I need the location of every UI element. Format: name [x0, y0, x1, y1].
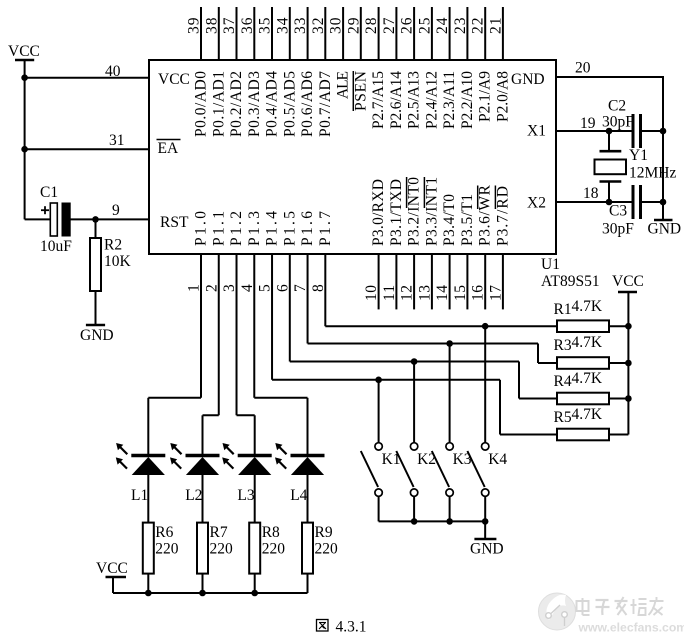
label C1 [40, 184, 58, 201]
svg-text:P3.7/RD: P3.7/RD [494, 186, 511, 246]
label R6 [155, 524, 173, 541]
wire K3 column [449, 344, 451, 444]
pin label P3.2/INT0 [406, 177, 423, 246]
svg-text:P3.6/WR: P3.6/WR [477, 184, 494, 246]
wire rail to C1 [25, 218, 51, 220]
pin number 8 [310, 284, 327, 292]
IC U1 AT89S51 body [149, 60, 556, 254]
svg-text:220: 220 [262, 541, 286, 558]
switch K1 [361, 443, 383, 497]
pin number 20 [575, 60, 591, 77]
svg-text:20: 20 [575, 60, 591, 77]
svg-text:34: 34 [274, 17, 291, 34]
node junction LED bus [251, 590, 258, 597]
pin number 4 [239, 284, 256, 292]
node junction RST-R2 [92, 216, 99, 223]
pin label ALE [335, 71, 352, 99]
wire pin 14 bottom stub [449, 254, 451, 309]
wire pin 25 top stub [431, 7, 433, 60]
svg-text:GND: GND [80, 327, 114, 344]
svg-text:P1.2: P1.2 [228, 211, 245, 246]
pin number 34 [274, 17, 291, 34]
pin label P1.5 [281, 211, 298, 246]
label L4 [290, 487, 307, 504]
svg-text:4.7K: 4.7K [572, 370, 603, 387]
node junction P1.6-K3 [446, 340, 453, 347]
LED L1 [116, 443, 166, 475]
svg-text:P2.5/A13: P2.5/A13 [406, 71, 423, 129]
svg-text:www.elecfans.com: www.elecfans.com [578, 621, 684, 635]
label C3 [609, 203, 627, 220]
svg-text:P2.0/A8: P2.0/A8 [494, 71, 511, 122]
svg-text:25: 25 [416, 17, 433, 34]
svg-text:3: 3 [221, 284, 238, 292]
wire pin6 P1.5 net [290, 254, 557, 399]
label 220 (R7) [210, 541, 234, 558]
label 12MHz [629, 165, 676, 182]
node junction K4 bus [482, 518, 489, 525]
wire K1 column [378, 380, 380, 443]
pin label P1.2 [228, 211, 245, 246]
wire K1 bottom stub [378, 496, 380, 521]
label R2 [104, 237, 122, 254]
wire pin 11 bottom stub [395, 254, 397, 309]
wire pin 34 top stub [289, 7, 291, 60]
resistor R6 [143, 523, 154, 593]
wire pin 13 bottom stub [431, 254, 433, 309]
pin number 38 [203, 17, 220, 34]
svg-text:8: 8 [310, 284, 327, 292]
label 4.7K (R5) [572, 406, 603, 423]
wire C3 to rail [641, 201, 664, 203]
pin number 9 [112, 202, 120, 219]
node junction rail [625, 360, 632, 367]
svg-text:9: 9 [112, 202, 120, 219]
pin number 31 [109, 132, 125, 149]
pin label P3.5/T1 [459, 194, 476, 246]
node junction X2 [606, 199, 613, 206]
ground GND right of C3 [648, 220, 682, 238]
svg-text:L3: L3 [237, 487, 254, 504]
wire pin 23 top stub [466, 7, 468, 60]
svg-text:P2.3/A11: P2.3/A11 [441, 71, 458, 129]
svg-text:P2.7/A15: P2.7/A15 [370, 71, 387, 129]
svg-text:P3.3/INT1: P3.3/INT1 [423, 177, 440, 246]
pin label EA (chip) [157, 140, 181, 158]
svg-text:7: 7 [292, 284, 309, 292]
wire pin 10 bottom stub [378, 254, 380, 309]
wire switch ground bus [379, 520, 486, 522]
svg-text:30pF: 30pF [602, 221, 634, 238]
svg-text:26: 26 [399, 17, 416, 34]
pin number 23 [452, 17, 469, 34]
svg-text:P1.5: P1.5 [281, 211, 298, 246]
svg-text:18: 18 [583, 185, 599, 202]
switch K4 [467, 443, 489, 497]
label 30pF C2 [602, 114, 634, 131]
svg-text:220: 220 [210, 541, 234, 558]
caption 图 4.3.1 [317, 619, 367, 636]
LED L4 [275, 443, 325, 475]
svg-text:220: 220 [155, 541, 179, 558]
svg-text:R6: R6 [155, 524, 173, 541]
pin label PSEN [352, 71, 369, 111]
node junction X1 [606, 128, 613, 135]
pin label X1 (chip) [527, 123, 546, 140]
label 220 (R6) [155, 541, 179, 558]
svg-text:L1: L1 [131, 487, 148, 504]
svg-text:1: 1 [186, 284, 203, 292]
svg-text:R1: R1 [554, 301, 572, 318]
wire pin 28 top stub [378, 7, 380, 60]
svg-text:P0.6/AD6: P0.6/AD6 [299, 71, 316, 137]
pin label P3.3/INT1 [423, 177, 440, 246]
svg-text:36: 36 [239, 17, 256, 34]
pin number 27 [381, 17, 398, 34]
svg-text:2: 2 [203, 284, 220, 292]
svg-text:30pF: 30pF [602, 114, 634, 131]
switch K2 [396, 443, 418, 497]
pin number 2 [203, 284, 220, 292]
resistor R3 [557, 357, 628, 369]
wire L1 to R6 [147, 475, 149, 523]
node junction P1.4-K1 [375, 377, 382, 384]
svg-text:17: 17 [487, 285, 504, 301]
pin number 36 [239, 17, 256, 34]
label 10uF [40, 238, 72, 255]
node junction K2 bus [411, 518, 418, 525]
svg-text:EA: EA [158, 140, 179, 157]
pin label GND (chip) [511, 71, 545, 88]
wire C1 to RST [70, 218, 149, 220]
wire L2 to R7 [202, 475, 204, 523]
wire pin 33 top stub [307, 7, 309, 60]
svg-text:R9: R9 [315, 524, 333, 541]
svg-text:38: 38 [203, 17, 220, 34]
svg-text:P0.2/AD2: P0.2/AD2 [228, 71, 245, 137]
LED L3 [222, 443, 272, 475]
svg-text:30: 30 [328, 17, 345, 34]
wire pin2 to L2 [203, 254, 219, 454]
svg-text:R3: R3 [554, 337, 572, 354]
pin number 15 [452, 285, 469, 301]
wire K4 column [484, 326, 486, 443]
svg-text:4: 4 [239, 284, 256, 292]
svg-text:P1.6: P1.6 [299, 211, 316, 246]
pin label P0.6/AD6 [299, 71, 316, 137]
pin number 7 [292, 284, 309, 292]
wire pin 12 bottom stub [413, 254, 415, 309]
label R8 [262, 524, 280, 541]
wire pin31 EA [25, 148, 149, 150]
svg-text:P3.0/RXD: P3.0/RXD [370, 179, 387, 246]
label K1 [382, 451, 401, 468]
svg-text:P0.5/AD5: P0.5/AD5 [281, 71, 298, 137]
svg-text:23: 23 [452, 17, 469, 34]
label 4.7K (R4) [572, 370, 603, 387]
svg-text:10: 10 [363, 285, 380, 301]
pin label P0.2/AD2 [228, 71, 245, 137]
capacitor C3 [633, 185, 641, 219]
wire K4 bottom stub [484, 496, 486, 521]
svg-text:P0.4/AD4: P0.4/AD4 [264, 71, 281, 137]
pin label P0.5/AD5 [281, 71, 298, 137]
pin number 19 [580, 115, 596, 132]
svg-text:P1.3: P1.3 [246, 211, 263, 246]
wire C2 to rail [641, 130, 664, 132]
pin number 6 [274, 284, 291, 292]
wire K2 bottom stub [413, 496, 415, 521]
pin label P2.2/A10 [459, 71, 476, 129]
svg-text:AT89S51: AT89S51 [541, 273, 600, 290]
label 10K [104, 253, 132, 270]
power symbol VCC top-left [8, 43, 40, 219]
svg-text:VCC: VCC [96, 560, 128, 577]
svg-text:16: 16 [470, 285, 487, 301]
svg-text:220: 220 [315, 541, 339, 558]
svg-text:X2: X2 [527, 195, 546, 212]
pin number 18 [583, 185, 599, 202]
pin label P2.4/A12 [423, 71, 440, 129]
resistor R5 [557, 429, 628, 441]
crystal Y1 [595, 131, 627, 202]
wire pin 27 top stub [395, 7, 397, 60]
wire LED VCC bus [113, 592, 308, 594]
svg-text:P3.4/T0: P3.4/T0 [441, 194, 458, 246]
svg-text:P1.4: P1.4 [264, 211, 281, 246]
svg-text:19: 19 [580, 115, 596, 132]
svg-text:R7: R7 [210, 524, 228, 541]
svg-text:U1: U1 [541, 256, 560, 273]
pin label P1.6 [299, 211, 316, 246]
svg-text:R8: R8 [262, 524, 280, 541]
label R1 [554, 301, 572, 318]
svg-text:PSEN: PSEN [352, 71, 369, 111]
svg-text:R4: R4 [554, 373, 572, 390]
svg-text:15: 15 [452, 285, 469, 301]
node junction P1.7-K4 [482, 323, 489, 330]
svg-text:P0.7/AD7: P0.7/AD7 [317, 71, 334, 137]
pin number 21 [487, 18, 504, 35]
wire pin 21 top stub [502, 7, 504, 60]
svg-text:P1.1: P1.1 [210, 211, 227, 246]
svg-text:4.7K: 4.7K [572, 406, 603, 423]
wire pin3 to L3 [237, 254, 255, 454]
svg-text:13: 13 [416, 285, 433, 301]
svg-text:12MHz: 12MHz [629, 165, 676, 182]
pin number 5 [257, 284, 274, 292]
pin number 26 [399, 17, 416, 34]
pin label X2 (chip) [527, 195, 546, 212]
power symbol VCC right [612, 273, 644, 435]
svg-text:GND: GND [648, 221, 682, 238]
node junction C2-rail [660, 128, 667, 135]
svg-text:5: 5 [257, 284, 274, 292]
wire K3 bottom stub [449, 496, 451, 521]
svg-text:VCC: VCC [612, 273, 644, 290]
label Y1 [629, 147, 648, 164]
resistor R4 [557, 393, 628, 405]
svg-text:29: 29 [345, 17, 362, 34]
resistor R9 [302, 523, 313, 593]
wire pin7 P1.6 net [308, 254, 557, 363]
wire pin 38 top stub [218, 7, 220, 60]
pin label P3.6/WR [477, 184, 494, 246]
pin number 37 [221, 17, 238, 34]
svg-text:X1: X1 [527, 123, 546, 140]
pin label P2.6/A14 [388, 71, 405, 129]
pin number 25 [416, 17, 433, 34]
svg-text:P2.4/A12: P2.4/A12 [423, 71, 440, 129]
wire pin 26 top stub [413, 7, 415, 60]
wire pin 37 top stub [236, 7, 238, 60]
pin label P1.7 [317, 211, 334, 246]
pin number 1 [186, 284, 203, 292]
svg-text:P1.7: P1.7 [317, 211, 334, 246]
svg-text:32: 32 [310, 18, 327, 35]
pin label P2.3/A11 [441, 71, 458, 129]
ground GND under switches [470, 521, 504, 557]
wire pin 36 top stub [253, 7, 255, 60]
wire pin1 to L1 [148, 254, 201, 454]
node junction LED bus [199, 590, 206, 597]
pin label P1.4 [264, 211, 281, 246]
pin label P0.0/AD0 [193, 71, 210, 137]
node junction K3 bus [446, 518, 453, 525]
svg-text:10uF: 10uF [40, 238, 72, 255]
svg-text:35: 35 [257, 17, 274, 34]
node junction VCC-pin31 [21, 146, 28, 153]
node junction rail [625, 395, 632, 402]
wire pin 30 top stub [342, 7, 344, 60]
svg-text:4.7K: 4.7K [572, 334, 603, 351]
svg-text:39: 39 [186, 17, 203, 34]
svg-text:P3.2/INT0: P3.2/INT0 [406, 177, 423, 246]
wire pin 32 top stub [324, 7, 326, 60]
label R3 [554, 337, 572, 354]
wire pin4 to L4 [254, 254, 307, 454]
wire pin18 X2 [556, 201, 633, 203]
pin label RST (chip) [160, 214, 189, 231]
pin label P0.3/AD3 [246, 71, 263, 137]
svg-text:21: 21 [487, 18, 504, 35]
label 220 (R8) [262, 541, 286, 558]
pin number 33 [292, 17, 309, 34]
pin number 22 [470, 18, 487, 35]
pin label P2.5/A13 [406, 71, 423, 129]
LED L2 [170, 443, 220, 475]
chip designator U1 [541, 256, 560, 273]
label 4.7K (R3) [572, 334, 603, 351]
capacitor C2 [633, 114, 641, 148]
pin number 40 [105, 63, 121, 80]
pin number 3 [221, 284, 238, 292]
resistor R7 [197, 523, 208, 593]
svg-text:P1.0: P1.0 [193, 211, 210, 246]
wire pin20 GND [556, 76, 663, 220]
svg-text:C2: C2 [608, 98, 626, 115]
pin number 17 [487, 285, 504, 301]
pin label P3.0/RXD [370, 179, 387, 246]
wire pin 22 top stub [484, 7, 486, 60]
wire K2 column [413, 362, 415, 444]
label R7 [210, 524, 228, 541]
label 30pF C3 [602, 221, 634, 238]
wire pin 17 bottom stub [502, 254, 504, 309]
resistor R1 [557, 320, 628, 332]
chip part number AT89S51 [541, 273, 600, 290]
svg-text:P0.0/AD0: P0.0/AD0 [193, 71, 210, 137]
svg-text:VCC: VCC [158, 71, 190, 88]
wire pin5 P1.4 net [272, 254, 557, 435]
svg-text:33: 33 [292, 17, 309, 34]
label K4 [488, 451, 507, 468]
wire L4 to R9 [307, 475, 309, 523]
wire L3 to R8 [254, 475, 256, 523]
svg-text:P2.2/A10: P2.2/A10 [459, 71, 476, 129]
svg-text:28: 28 [363, 17, 380, 34]
wire pin8 P1.7 net [325, 254, 557, 326]
label R9 [315, 524, 333, 541]
label 220 (R9) [315, 541, 339, 558]
label L2 [185, 487, 202, 504]
svg-text:VCC: VCC [8, 43, 40, 60]
pin label P2.7/A15 [370, 71, 387, 129]
pin label P2.1/A9 [477, 71, 494, 122]
svg-text:P3.1/TXD: P3.1/TXD [388, 179, 405, 246]
label R4 [554, 373, 572, 390]
node junction P1.5-K2 [411, 358, 418, 365]
wire pin 39 top stub [200, 7, 202, 60]
pin label P0.7/AD7 [317, 71, 334, 137]
switch K3 [432, 443, 454, 497]
svg-text:6: 6 [274, 284, 291, 292]
svg-text:31: 31 [109, 132, 125, 149]
svg-text:12: 12 [399, 285, 416, 301]
label K3 [453, 451, 472, 468]
node junction LED bus [145, 590, 152, 597]
pin label P3.1/TXD [388, 179, 405, 246]
pin label P2.0/A8 [494, 71, 511, 122]
pin label P1.1 [210, 211, 227, 246]
svg-text:37: 37 [221, 17, 238, 34]
svg-text:4.3.1: 4.3.1 [336, 619, 367, 636]
svg-text:GND: GND [470, 541, 504, 558]
pin number 11 [381, 285, 398, 301]
svg-text:GND: GND [511, 71, 545, 88]
wire pin 29 top stub [360, 7, 362, 60]
svg-text:11: 11 [381, 285, 398, 301]
pin label P1.3 [246, 211, 263, 246]
wire pin 35 top stub [271, 7, 273, 60]
resistor R8 [249, 523, 260, 593]
svg-text:P0.3/AD3: P0.3/AD3 [246, 71, 263, 137]
svg-text:24: 24 [434, 17, 451, 34]
pin number 28 [363, 17, 380, 34]
pin number 32 [310, 18, 327, 35]
resistor R2 [90, 219, 101, 325]
pin number 39 [186, 17, 203, 34]
pin number 29 [345, 17, 362, 34]
svg-text:R2: R2 [104, 237, 122, 254]
watermark elecfans logo [539, 593, 684, 635]
pin label P1.0 [193, 211, 210, 246]
power symbol VCC bottom-left [96, 560, 128, 593]
label K2 [417, 451, 436, 468]
svg-text:4.7K: 4.7K [572, 298, 603, 315]
pin number 10 [363, 285, 380, 301]
svg-text:Y1: Y1 [629, 147, 648, 164]
